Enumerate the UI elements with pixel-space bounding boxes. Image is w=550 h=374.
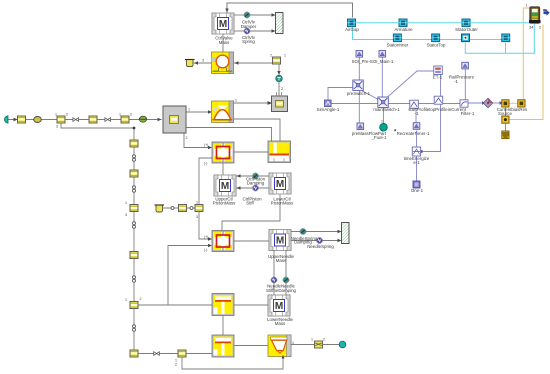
wire upper needle mass down right xyxy=(285,251,287,296)
orifice rail5 xyxy=(133,325,136,331)
wire orange dashes xyxy=(509,102,518,104)
svg-text:1: 1 xyxy=(284,54,286,58)
wire mass down to ballvalve xyxy=(222,34,224,52)
svg-text:1: 1 xyxy=(196,201,198,205)
block rail5 xyxy=(130,302,138,309)
const teal one xyxy=(380,124,388,132)
block measure chamber xyxy=(272,93,288,112)
svg-text:Filter-1: Filter-1 xyxy=(461,111,475,116)
nozzle injector tip xyxy=(268,335,291,359)
wire rail vertical xyxy=(133,128,135,354)
svg-text:StatorInner: StatorInner xyxy=(387,42,409,47)
svg-text:1: 1 xyxy=(235,99,237,103)
wire piston1 to cylinder xyxy=(234,151,268,153)
svg-text:Mass: Mass xyxy=(276,258,287,263)
wire gold node down xyxy=(504,123,506,131)
block gold resistor xyxy=(518,100,525,107)
mass UpperCtrlPiston xyxy=(214,175,236,196)
block preMassFlowPart xyxy=(357,123,364,130)
wire grayblock bottom to piston1 xyxy=(184,133,210,148)
svg-text:-1: -1 xyxy=(454,79,458,84)
wire orange coil1 xyxy=(523,7,531,9)
block mmf source xyxy=(502,34,510,42)
svg-text:Armature: Armature xyxy=(394,27,413,32)
svg-text:ET-1: ET-1 xyxy=(433,75,443,80)
svg-text:Stiff: Stiff xyxy=(246,201,254,206)
spring CtrlPistonStiff xyxy=(252,185,258,191)
node rail top junction xyxy=(133,127,136,130)
block preSwitch xyxy=(353,80,364,91)
wire mass top to airgap xyxy=(227,3,353,17)
orifice rail3 xyxy=(133,222,136,228)
wire upper needle mass down left xyxy=(273,251,275,296)
diamond converter xyxy=(483,98,493,108)
tank supply left xyxy=(156,205,163,212)
wire needle spring row xyxy=(291,240,340,242)
wire spring to wall xyxy=(251,30,275,32)
block mainSwitch xyxy=(378,97,389,108)
svg-text:2: 2 xyxy=(140,297,142,301)
block AirGap xyxy=(348,19,356,27)
block stopProfile xyxy=(434,96,443,104)
svg-text:PistonMass: PistonMass xyxy=(213,201,236,206)
damper NeedleSpringDamping xyxy=(300,228,306,234)
wire soimain down xyxy=(381,57,383,97)
svg-text:StatorOuter: StatorOuter xyxy=(455,27,478,32)
svg-text:NeedleSpring: NeedleSpring xyxy=(307,244,334,249)
svg-text:2: 2 xyxy=(281,87,283,91)
svg-text:3: 3 xyxy=(196,215,198,219)
svg-text:1: 1 xyxy=(526,4,528,8)
svg-text:1: 1 xyxy=(125,201,127,205)
block tank junction on rail xyxy=(195,205,203,212)
block chain4 xyxy=(121,116,129,123)
wire lowerM down to piston2 xyxy=(222,195,280,230)
wire bell top right to measure block xyxy=(233,102,270,104)
wire diamond to gold xyxy=(492,102,502,104)
svg-text:2: 2 xyxy=(130,113,132,117)
orifice rail2 xyxy=(133,186,136,192)
block timeEnergize xyxy=(412,147,420,156)
wire branch block2 down xyxy=(61,123,134,128)
wire damper ctlpiston xyxy=(236,175,269,177)
wire piston3 down to piston4 xyxy=(222,316,224,337)
spring NeedleNeedleStiffness xyxy=(271,277,277,283)
block SOI_Pre xyxy=(356,51,363,58)
wire grayblock to cylinder left port xyxy=(186,128,272,142)
wire nozzle return bottom xyxy=(182,356,283,369)
wire simangle to mainswitch xyxy=(331,103,378,105)
svg-text:Mass: Mass xyxy=(219,40,230,45)
block gold current source xyxy=(502,100,509,107)
svg-text:(-): (-) xyxy=(204,248,207,252)
wire preswitch down to premass xyxy=(358,91,360,123)
piston4 sac volume xyxy=(212,335,234,357)
piston3 needle seat xyxy=(212,294,234,316)
wire mainswitch down to const xyxy=(383,108,385,124)
wire orange coil2 xyxy=(509,25,544,120)
wire block to tcircle xyxy=(278,64,280,75)
node circle tank1 xyxy=(171,207,174,210)
wire damper to wall xyxy=(251,14,275,16)
wire nozzle to plug xyxy=(291,344,339,346)
block StatorOuter xyxy=(462,19,470,27)
block pilot orifice xyxy=(273,57,281,64)
wire simangle to preswitch xyxy=(328,88,353,101)
wire startprofile down to recreatetimer xyxy=(415,108,417,123)
damper CtrlVlvDamper xyxy=(244,12,250,18)
svg-text:1: 1 xyxy=(188,108,190,112)
block startProfile xyxy=(410,100,419,108)
valve bell CtrlValve seat xyxy=(212,101,234,123)
block chain3 xyxy=(89,116,97,123)
damper CtrlPistonDamping xyxy=(252,173,258,179)
svg-text:RecreateTimer-1: RecreateTimer-1 xyxy=(397,131,430,136)
svg-text:Damper: Damper xyxy=(241,24,257,29)
piston2 needle control xyxy=(212,231,234,252)
block flux node xyxy=(462,34,470,42)
block rail3 xyxy=(130,205,138,212)
svg-text:AirGap: AirGap xyxy=(345,27,359,32)
svg-text:e-1: e-1 xyxy=(413,160,420,165)
wire mass to damper xyxy=(234,14,244,16)
wire rail5 to piston3 xyxy=(139,304,213,306)
svg-text:Damping: Damping xyxy=(247,181,265,186)
wire mass to spring xyxy=(234,30,244,32)
svg-text:Mass: Mass xyxy=(275,321,286,326)
spring NeedleSpring xyxy=(316,237,322,243)
svg-text:34: 34 xyxy=(529,25,534,30)
svg-text:(-): (-) xyxy=(204,162,207,166)
svg-text:2: 2 xyxy=(186,136,188,140)
wire cyan block stub xyxy=(505,43,507,53)
svg-text:-1: -1 xyxy=(415,111,419,116)
tank ctrl exhaust xyxy=(187,60,194,67)
block nozzle outlet orifice xyxy=(315,341,323,348)
svg-text:SimAngle-1: SimAngle-1 xyxy=(317,107,340,112)
wire cyan airgap down to row2 xyxy=(353,27,502,40)
wire piston1 down to mass xyxy=(222,163,224,175)
wire soipre down xyxy=(358,57,360,80)
block Armature xyxy=(399,19,407,27)
node circle tank2 xyxy=(190,207,193,210)
block StatorTop xyxy=(432,34,440,42)
source teal cap xyxy=(4,116,8,123)
sink teal plug xyxy=(339,341,346,348)
block StatorInner xyxy=(393,34,401,42)
block rail2 xyxy=(130,170,138,177)
orifice bottom chain xyxy=(154,352,160,356)
wire needle damper row xyxy=(291,231,340,233)
block mainCurrentFilter xyxy=(460,100,468,107)
wall ctrl valve anchor xyxy=(276,13,284,34)
wire piston2 to upper needle mass xyxy=(234,240,269,242)
svg-text:2: 2 xyxy=(323,338,325,342)
block One xyxy=(413,181,420,188)
wall needle spring anchor xyxy=(342,223,350,244)
block tank mid xyxy=(179,205,187,212)
svg-text:StiffneDamping: StiffneDamping xyxy=(266,288,296,293)
svg-text:One-1: One-1 xyxy=(411,188,424,193)
wire row y103 xyxy=(389,103,461,105)
block RecreateTimer xyxy=(413,123,420,130)
wire tcircle to measure xyxy=(278,82,280,96)
cylinder control volume xyxy=(268,141,291,163)
mass UpperNeedle xyxy=(269,230,291,251)
block distributor gray xyxy=(163,106,186,133)
wire bell bottom right to cylinder xyxy=(233,119,280,141)
sensor teal circle xyxy=(276,75,283,82)
svg-text:preSwitch-1: preSwitch-1 xyxy=(347,91,371,96)
wire main left chain xyxy=(8,119,161,121)
svg-text:Source: Source xyxy=(498,111,512,116)
block bottom junction xyxy=(178,350,186,357)
svg-text:3: 3 xyxy=(125,213,127,217)
svg-text:StatorTop: StatorTop xyxy=(427,42,446,47)
wire spring ctlpiston xyxy=(236,187,269,189)
ellipse valve1 xyxy=(34,117,42,123)
mass LowerCtrlPiston xyxy=(269,173,291,194)
block chain1 xyxy=(18,116,26,123)
wire cyan row2 to solenoid xyxy=(465,25,534,54)
svg-text:2: 2 xyxy=(175,363,177,367)
orifice rail1 xyxy=(133,155,136,161)
wire mainswitch diag to ET xyxy=(387,71,434,98)
orifice chain1 xyxy=(73,118,79,122)
wire rail199 vertical xyxy=(199,158,213,239)
wire gold down xyxy=(504,107,506,116)
wire bottom chain xyxy=(139,353,213,355)
svg-text:2: 2 xyxy=(539,25,542,30)
svg-text:Spring: Spring xyxy=(242,39,255,44)
svg-text:1: 1 xyxy=(119,113,121,117)
svg-text:1: 1 xyxy=(125,298,127,302)
svg-text:(+): (+) xyxy=(204,235,208,239)
block gold ground xyxy=(502,131,509,139)
svg-text:2: 2 xyxy=(66,113,68,117)
svg-text:PistonMass: PistonMass xyxy=(271,201,294,206)
svg-text:mainSwitch-1: mainSwitch-1 xyxy=(373,107,400,112)
mass LowerNeedle xyxy=(268,295,290,316)
block SOI_Main xyxy=(379,51,386,58)
block rail6 bottom xyxy=(130,350,138,357)
piston1 control xyxy=(212,142,234,163)
svg-text:SOI_Pre-SOI_Main-1: SOI_Pre-SOI_Main-1 xyxy=(352,59,394,64)
damper NeedleNeedleDamping xyxy=(283,277,289,283)
solenoid coil icon xyxy=(529,7,541,23)
svg-text:_Fuel-1: _Fuel-1 xyxy=(371,135,387,140)
block RailPressure xyxy=(462,62,469,69)
wire piston3 to lower needle mass xyxy=(233,304,268,306)
svg-text:1: 1 xyxy=(381,120,383,124)
svg-text:RailPressure: RailPressure xyxy=(449,75,475,80)
orifice chain2 xyxy=(105,118,111,122)
wire ballvalve right to block xyxy=(233,62,273,64)
wire recreatetimer down chain xyxy=(416,131,418,147)
wire cyan row1 xyxy=(356,22,532,24)
block chain2 xyxy=(57,116,65,123)
valve ball CtrlValve xyxy=(212,52,234,74)
svg-text:1: 1 xyxy=(311,338,313,342)
wire grayblock to bell xyxy=(186,111,210,113)
block ET xyxy=(434,66,443,75)
wire railpressure down to filter xyxy=(464,69,466,100)
wire riser x168 to piston2 xyxy=(168,246,210,306)
svg-text:(+): (+) xyxy=(204,143,208,147)
wire piston4 to nozzle xyxy=(234,345,268,347)
svg-text:1: 1 xyxy=(55,113,57,117)
svg-text:2: 2 xyxy=(270,54,272,58)
mass CtrlValve xyxy=(212,13,234,34)
wire tank chain xyxy=(164,207,196,209)
arrow into block1 xyxy=(14,118,18,122)
block rail1 xyxy=(130,140,138,147)
svg-text:3: 3 xyxy=(56,125,58,129)
ellipse valve2 xyxy=(139,116,146,122)
spring CtrlVlvSpring xyxy=(244,28,250,34)
orifice rail4 xyxy=(133,276,136,282)
svg-text:3: 3 xyxy=(202,59,204,63)
block rail4 xyxy=(130,252,138,259)
icon blue arrow xyxy=(544,10,550,16)
wire purple filter to diamond xyxy=(468,102,485,104)
wire preswitch diag to mainswitch xyxy=(362,91,379,100)
block SimAngle xyxy=(325,100,332,107)
block gold node xyxy=(502,116,509,123)
wire ET down to stopprofile xyxy=(440,75,442,97)
wire stopprofile down to timeenergize xyxy=(421,105,441,152)
wire ballvalve left to tank xyxy=(194,62,212,64)
